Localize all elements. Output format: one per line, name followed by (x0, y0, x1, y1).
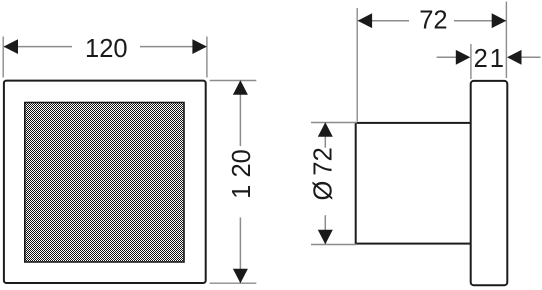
svg-text:Ø 72: Ø 72 (309, 147, 337, 200)
dim diameter 72: extension lines (311, 122, 357, 124)
side view body (356, 123, 471, 244)
dim depth 72: extension lines (356, 8, 358, 122)
svg-text:72: 72 (419, 7, 447, 35)
dim depth 72: arrows (358, 13, 373, 28)
dim flange 21: extension line (470, 44, 472, 79)
dim flange 21: left leader (437, 56, 457, 58)
dim depth 72: dimension line (358, 20, 409, 22)
dim diameter 72: dimension line (324, 123, 326, 148)
front view speaker grille (checker) (25, 103, 184, 263)
side view flange (471, 81, 508, 285)
svg-text:1 20: 1 20 (228, 149, 256, 199)
dim diameter 72: arrows (318, 122, 333, 137)
dim height 120: arrows (233, 80, 248, 95)
dim flange 21: right leader (521, 56, 541, 58)
dim width 120: arrows (4, 39, 19, 54)
svg-text:120: 120 (85, 35, 128, 63)
front view outer square (4, 81, 206, 283)
dim width 120: extension lines (2, 37, 4, 78)
dim height 120: extension lines (210, 80, 257, 82)
dim height 120: dimension line (239, 81, 241, 146)
svg-text:21: 21 (474, 45, 506, 73)
dim width 120: dimension line (4, 46, 72, 48)
